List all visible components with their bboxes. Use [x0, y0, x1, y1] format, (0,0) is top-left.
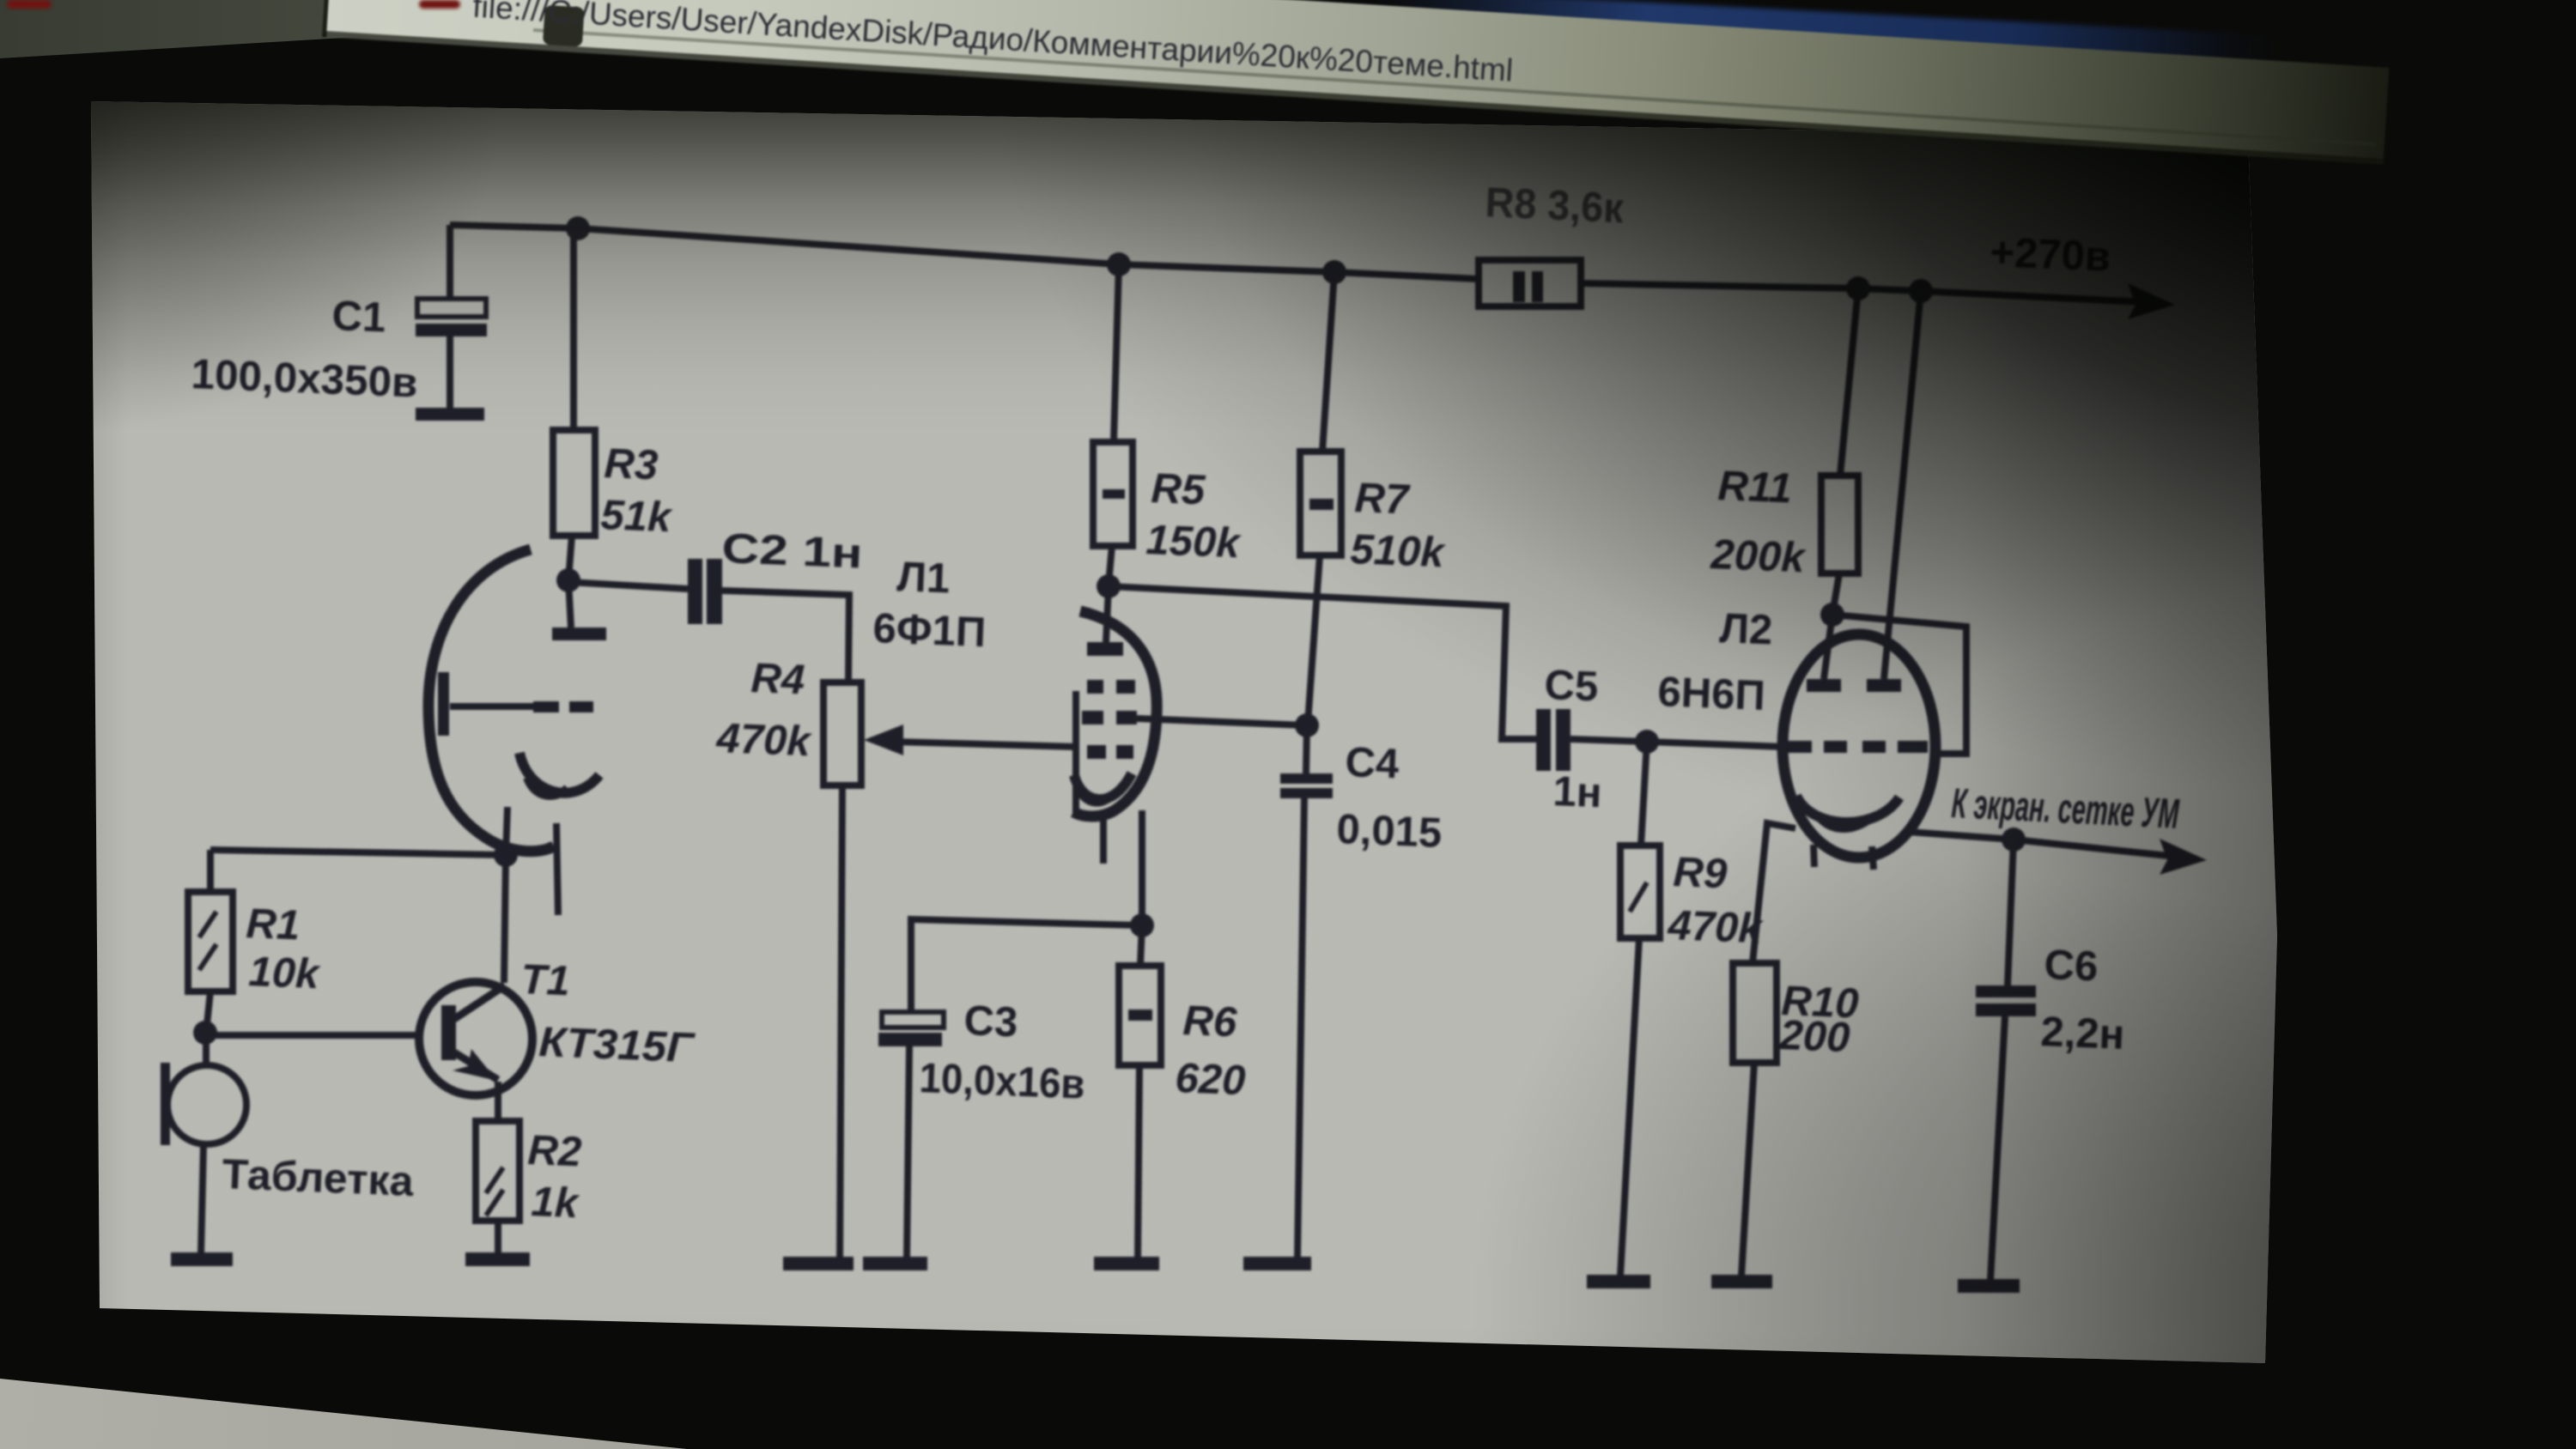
- wire: pot wiper from grid: [893, 742, 1076, 747]
- node: cathode/collector junction: [494, 843, 518, 867]
- svg-text:C3: C3: [963, 997, 1019, 1046]
- ground (C6): [1958, 1279, 2020, 1293]
- arrow: T1 emitter arrowhead: [453, 1049, 497, 1081]
- capacitor C5: [1536, 709, 1571, 771]
- blue title-bar sliver: [1371, 0, 2283, 85]
- label: R2: [527, 1127, 583, 1175]
- node: R7/C4/screen junction: [1295, 713, 1319, 737]
- node: cathode/C3/R6 junction: [1130, 913, 1154, 937]
- svg-text:R3: R3: [604, 440, 659, 488]
- ground (R2): [465, 1252, 530, 1266]
- svg-text:1k: 1k: [531, 1179, 581, 1227]
- label: C1: [331, 293, 387, 341]
- label: R6: [1182, 997, 1239, 1046]
- wire: T1 collector: [504, 855, 506, 983]
- label: 2,2н: [2040, 1009, 2126, 1058]
- stub: L1a heater lead: [556, 823, 558, 915]
- ground (C4): [1243, 1257, 1311, 1270]
- node: R3-C2-anode junction: [556, 568, 580, 592]
- arrow: output arrowhead: [2160, 839, 2207, 875]
- wire: output line: [2014, 840, 2185, 858]
- svg-text:R8 3,6к: R8 3,6к: [1485, 179, 1625, 232]
- wire: junction to C3 corner: [911, 919, 1142, 1012]
- wire: R10 to ground: [1741, 1063, 1754, 1276]
- wire: R1 bottom to base node: [206, 991, 210, 1033]
- wire: +270V top rail (C1 corner to arrow): [450, 225, 2164, 303]
- resistor R10 200: [1733, 963, 1777, 1063]
- svg-text:К экран. сетке УМ: К экран. сетке УМ: [1950, 780, 2180, 838]
- transistor T1 КТ315Г: [419, 982, 532, 1121]
- node: rail junction at R3: [566, 216, 590, 240]
- stub: L2 heater leads: [1814, 845, 1874, 870]
- label: C5: [1544, 662, 1600, 710]
- label: 1н (C5): [1552, 768, 1603, 816]
- wire: junction to C2: [568, 582, 688, 589]
- svg-text:100,0x350в: 100,0x350в: [191, 351, 419, 407]
- svg-text:6Ф1П: 6Ф1П: [872, 605, 987, 656]
- svg-text:620: 620: [1175, 1055, 1247, 1104]
- node: output/C6 junction: [2002, 828, 2026, 852]
- svg-text:R11: R11: [1717, 463, 1793, 512]
- label: 200k: [1710, 531, 1808, 581]
- svg-text:C5: C5: [1544, 662, 1600, 710]
- browser address bar: [322, 0, 2389, 165]
- ground (R4): [783, 1257, 854, 1270]
- microphone Таблетка (electret): [161, 1035, 246, 1145]
- label: R10: [1781, 978, 1860, 1028]
- capacitor C2: [688, 559, 722, 624]
- svg-text:Л1: Л1: [896, 554, 951, 602]
- svg-text:КТ315Г: КТ315Г: [538, 1019, 696, 1071]
- svg-text:Л2: Л2: [1719, 605, 1774, 653]
- wire: C5 to grid node: [1571, 739, 1647, 742]
- resistor R2 1k: [476, 1121, 519, 1221]
- svg-text:2,2н: 2,2н: [2040, 1009, 2126, 1058]
- svg-text:470k: 470k: [715, 715, 814, 765]
- label: R8 3,6к: [1485, 179, 1625, 232]
- wire: screen grid to R7 node: [1137, 718, 1306, 725]
- resistor R1 10k: [188, 850, 233, 991]
- label: C6: [2044, 942, 2099, 990]
- ground (R9): [1587, 1275, 1650, 1288]
- arrow: +270V rail arrowhead: [2128, 283, 2175, 319]
- capacitor C1 (polarized, +plate hollow): [416, 225, 487, 421]
- resistor R6 620: [1119, 925, 1161, 1258]
- grid dashes row3 L1b: [1087, 745, 1133, 759]
- svg-text:R1: R1: [246, 900, 301, 949]
- screen grid dashes row1 L1b: [1087, 680, 1135, 694]
- svg-text:R5: R5: [1151, 465, 1207, 514]
- ground (R6): [1094, 1257, 1159, 1270]
- capacitor C6: [1976, 840, 2036, 1281]
- svg-text:0,015: 0,015: [1336, 806, 1443, 857]
- label: Таблетка: [222, 1151, 416, 1205]
- wire: R4 bottom to ground: [840, 785, 842, 1258]
- label: R5: [1151, 465, 1207, 514]
- capacitor C4: [1280, 725, 1333, 1258]
- node: C5/R9/grid junction: [1635, 730, 1659, 754]
- terminal: L1a grid input bar: [438, 672, 449, 736]
- anode bars L2: [1807, 615, 1901, 692]
- wire: grid feedback loop: [1832, 615, 1966, 754]
- svg-text:510k: 510k: [1350, 526, 1448, 576]
- resistor R4 470k (pot): [823, 682, 861, 785]
- label: 1k: [531, 1179, 581, 1227]
- label: C3: [963, 997, 1019, 1046]
- resistor R7 510k: [1300, 272, 1341, 724]
- svg-text:R7: R7: [1354, 475, 1413, 524]
- svg-text:200k: 200k: [1710, 531, 1808, 581]
- resistor R5 150k: [1093, 264, 1133, 585]
- node: rail junction at R5: [1107, 252, 1131, 276]
- svg-text:6Н6П: 6Н6П: [1657, 669, 1766, 719]
- label: КТ315Г: [538, 1019, 696, 1071]
- ground (R10): [1711, 1275, 1772, 1288]
- svg-text:470k: 470k: [1667, 902, 1765, 952]
- resistor R9 470k: [1620, 742, 1660, 1276]
- node: rail junction at R11: [1846, 276, 1870, 300]
- wire: L1b cathode lead: [1139, 810, 1145, 925]
- label: Л2: [1719, 605, 1774, 653]
- svg-text:T1: T1: [520, 956, 571, 1004]
- anode bar L1b: [1087, 586, 1123, 656]
- wire: pentode anode to C5: [1109, 586, 1536, 739]
- resistor R8 (3.6k in rail): [1479, 260, 1581, 306]
- grid dashes row2 L1b: [1082, 711, 1137, 724]
- svg-text:C6: C6: [2044, 942, 2099, 990]
- svg-text:C2 1н: C2 1н: [721, 525, 864, 578]
- svg-text:C4: C4: [1345, 739, 1400, 787]
- svg-text:150k: 150k: [1145, 517, 1243, 567]
- arrow: R4 wiper arrowhead: [864, 724, 903, 755]
- label: 6Н6П: [1657, 669, 1766, 719]
- label: 10,0x16в: [919, 1055, 1086, 1108]
- label: 510k: [1350, 526, 1448, 576]
- ground (mic): [171, 1252, 233, 1266]
- label: 51k: [600, 492, 675, 541]
- node: R5/anode junction: [1097, 574, 1121, 598]
- svg-text:10k: 10k: [248, 949, 323, 997]
- label: 100,0x350в: [191, 351, 419, 407]
- tube U1b envelope (Л1 pentode half): [1073, 611, 1157, 816]
- svg-text:R6: R6: [1182, 997, 1239, 1046]
- label: C4: [1345, 739, 1400, 787]
- label: R4: [750, 655, 806, 703]
- label: R3: [604, 440, 659, 488]
- label: T1: [520, 956, 571, 1004]
- svg-text:Таблетка: Таблетка: [222, 1151, 416, 1205]
- wire: L1a cathode to node: [506, 807, 507, 855]
- cathode arc L1a: [519, 753, 599, 796]
- wire: L2 cathode to R10: [1753, 823, 1795, 963]
- label: R1: [246, 900, 301, 949]
- wire: C2 to R4 top: [722, 591, 849, 682]
- wire: cathode node to R1 corner: [210, 850, 506, 855]
- label: R7: [1354, 475, 1413, 524]
- svg-text:10,0x16в: 10,0x16в: [919, 1055, 1086, 1108]
- cathode arc L2: [1796, 796, 1899, 828]
- wire: L1a grid lead: [450, 703, 533, 710]
- wire: L2 cathode output: [1908, 832, 2014, 840]
- node: R11/anode/grid-loop junction: [1820, 603, 1844, 627]
- svg-text:R2: R2: [527, 1127, 583, 1175]
- svg-text:C1: C1: [331, 293, 387, 341]
- label: 150k: [1145, 517, 1243, 567]
- svg-text:+270в: +270в: [1990, 229, 2112, 281]
- node: rail junction at R7: [1322, 260, 1346, 284]
- grid dashes L1a: [533, 701, 593, 712]
- label: Л1: [896, 554, 951, 602]
- ground (C3): [863, 1257, 927, 1270]
- label: К экран. сетке УМ: [1950, 780, 2180, 838]
- label: 470k (R9): [1667, 902, 1765, 952]
- label: 6Ф1П: [872, 605, 987, 656]
- label: +270в: [1990, 229, 2112, 281]
- svg-text:51k: 51k: [600, 492, 675, 541]
- label: C2 1н: [721, 525, 864, 578]
- label: R11: [1717, 463, 1793, 512]
- wire: R2 to ground: [495, 1221, 501, 1254]
- capacitor C3 (polarized): [878, 1012, 944, 1258]
- anode bar L1a: [552, 580, 606, 640]
- label: R9: [1673, 849, 1729, 898]
- grid dashes L2: [1782, 741, 1928, 753]
- wire: base wire to T1: [205, 1032, 419, 1039]
- label: 0,015: [1336, 806, 1443, 857]
- tube U1a envelope (Л1 triode half): [428, 549, 554, 852]
- resistor R3 51k: [553, 228, 595, 580]
- label: 470k: [715, 715, 814, 765]
- svg-text:R4: R4: [750, 655, 806, 703]
- wire: L1b grid frame: [1072, 691, 1079, 814]
- label: 10k: [248, 949, 323, 997]
- cathode arc L1b: [1074, 773, 1132, 803]
- svg-text:1н: 1н: [1552, 768, 1603, 816]
- wire: L2 right anode feed: [1884, 291, 1921, 679]
- wire: grid node to L2 grid: [1647, 742, 1783, 747]
- svg-text:200: 200: [1778, 1012, 1851, 1061]
- tube U2 envelope (Л2 6Н6П): [1783, 634, 1935, 858]
- label: 620: [1175, 1055, 1247, 1104]
- svg-text:R9: R9: [1673, 849, 1729, 898]
- label: 200 (R10): [1778, 1012, 1851, 1061]
- node: R1/mic/base junction: [193, 1021, 217, 1045]
- node: rail junction at L2 anode: [1909, 279, 1933, 303]
- wire: mic to ground: [201, 1144, 204, 1254]
- stub: L1b heater lead: [1100, 819, 1107, 864]
- resistor R11 200k: [1821, 288, 1858, 615]
